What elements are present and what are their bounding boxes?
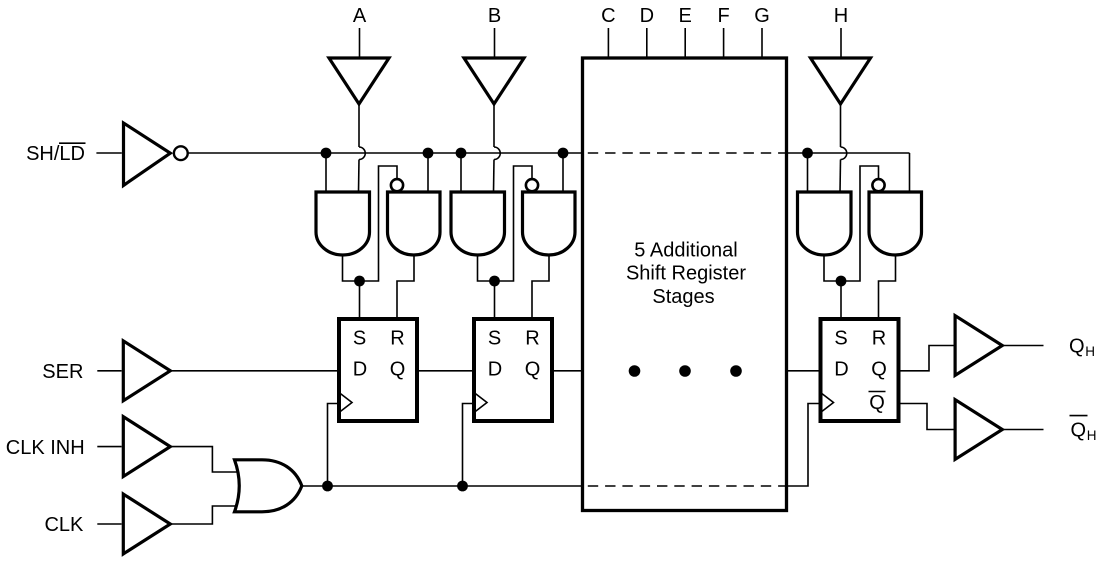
stub wire from label C into stage box xyxy=(607,28,609,58)
AND gate 1B (load reset gate) xyxy=(388,192,441,255)
wire: buffer B output down to crossover hop xyxy=(493,104,495,147)
junction dot on SH/LD line at gate 1B right input xyxy=(423,148,434,159)
wire: CLK INH buffer to OR gate top input xyxy=(170,447,238,472)
5 additional shift register stages box xyxy=(583,58,787,511)
svg-text:H: H xyxy=(1085,344,1095,359)
svg-text:Q: Q xyxy=(390,359,406,381)
svg-text:A: A xyxy=(353,5,367,27)
wire: FF2 Q into stage box xyxy=(552,370,583,372)
svg-text:C: C xyxy=(601,5,615,27)
svg-text:H: H xyxy=(1087,428,1097,443)
wire: QH buffer output xyxy=(1002,345,1043,347)
wire: B line below hop into load gate right input xyxy=(493,160,496,193)
svg-text:Q: Q xyxy=(1071,420,1087,442)
svg-text:SH/LD: SH/LD xyxy=(26,143,85,165)
junction dot on gate 1A output (S node) xyxy=(354,276,365,287)
wire: SH/LD label to inverter xyxy=(96,152,121,154)
stub wire from label A xyxy=(359,28,361,57)
junction dot clock to FF2 xyxy=(457,481,468,492)
AND gate 2B (load reset gate) xyxy=(523,192,576,255)
inverter U1 triangle for SH/LD xyxy=(124,123,171,185)
wire: gate 8B output jog to R input of flip-flop 8 xyxy=(879,255,896,319)
stub wire from label F into stage box xyxy=(723,28,725,58)
stub wire from label B xyxy=(494,28,496,57)
CLK input buffer xyxy=(123,494,170,554)
ellipsis dot 1 xyxy=(629,365,641,377)
wire: CLK INH label to buffer xyxy=(97,446,121,448)
wire: gate 2A output jog to S and to gate 2B bubble xyxy=(478,166,533,281)
junction dot on gate 8A output (S node) xyxy=(836,276,847,287)
svg-text:S: S xyxy=(353,328,366,350)
wire: buffer H output down to crossover hop xyxy=(840,104,842,147)
flip-flop FF2 box xyxy=(474,319,552,421)
inverter U1 output bubble xyxy=(174,146,188,160)
crossover hop of B line over SH/LD line xyxy=(494,147,500,160)
inverting bubble on gate 2B left input xyxy=(526,179,538,191)
wire: SH/LD line down to gate 2A left input xyxy=(460,153,462,192)
svg-text:Q: Q xyxy=(1069,336,1085,358)
AND gate 8A (load set gate) xyxy=(798,192,852,255)
wire: QbarH buffer output xyxy=(1002,429,1043,431)
overbar over LD xyxy=(59,142,86,144)
wire: CLK buffer to OR gate bottom input xyxy=(170,506,238,524)
wire: clock from stage box up to FF8 clock input xyxy=(787,404,821,487)
svg-text:D: D xyxy=(353,359,367,381)
junction dot on SH/LD line at load gate 8A left input xyxy=(802,148,813,159)
stub wire from label E into stage box xyxy=(684,28,686,58)
wire: FF8 Qbar to QbarH output buffer xyxy=(899,404,954,430)
wire: stage box to FF8 D xyxy=(787,370,821,372)
flip-flop FF8 box xyxy=(821,319,899,421)
SH/LD net solid from stage box to stage-8 gates xyxy=(787,152,910,154)
stub wire from label D into stage box xyxy=(646,28,648,58)
FF1 clock edge triangle xyxy=(339,393,352,413)
svg-text:Q: Q xyxy=(869,392,885,414)
QH output buffer xyxy=(955,316,1002,376)
svg-text:SER: SER xyxy=(42,361,83,383)
junction dot clock to FF1 xyxy=(322,481,333,492)
svg-text:CLK INH: CLK INH xyxy=(6,437,85,459)
ellipsis dot 3 xyxy=(730,365,742,377)
svg-text:5 Additional: 5 Additional xyxy=(634,239,737,261)
input buffer A (non-inverting, pointing down) xyxy=(329,58,389,104)
wire: H line below hop into load gate right input xyxy=(839,160,842,193)
svg-text:F: F xyxy=(717,5,729,27)
junction dot on SH/LD line at load gate 1A left input xyxy=(321,148,332,159)
junction dot on SH/LD line at gate 2B right input xyxy=(558,148,569,159)
wire: S input into flip-flop 1 xyxy=(359,281,361,319)
clock net: OR output to stage box xyxy=(302,485,583,487)
SER input buffer xyxy=(123,341,170,401)
wire: SH/LD line down to gate 8A left input xyxy=(807,153,809,192)
AND gate 2A (load set gate) xyxy=(451,192,505,255)
wire: SH/LD line down to gate 2B right input xyxy=(562,153,564,192)
AND gate 1A (load set gate) xyxy=(316,192,370,255)
AND gate 8B (load reset gate) xyxy=(869,192,922,255)
svg-text:CLK: CLK xyxy=(44,514,84,536)
wire: CLK label to buffer xyxy=(97,523,121,525)
OR gate G17 (clock combining) xyxy=(235,460,302,512)
QbarH output buffer xyxy=(955,400,1002,460)
CLK INH input buffer xyxy=(123,417,170,477)
wire: buffer A output down to crossover hop xyxy=(358,104,360,147)
wire: S input into flip-flop 2 xyxy=(494,281,496,319)
stub wire from label G into stage box xyxy=(761,28,763,58)
wire: S input into flip-flop 8 xyxy=(840,281,842,319)
svg-text:Q: Q xyxy=(871,359,887,381)
input buffer H (non-inverting, pointing down) xyxy=(811,58,871,104)
svg-text:D: D xyxy=(488,359,502,381)
wire: SER label to buffer xyxy=(97,370,121,372)
clock net dashed inside 5-stage box xyxy=(583,485,787,487)
svg-text:G: G xyxy=(754,5,770,27)
crossover hop of H line over SH/LD line xyxy=(841,147,847,160)
svg-text:B: B xyxy=(488,5,501,27)
wire: gate 1A output jog to S and to gate 1B bubble xyxy=(343,166,398,281)
inverting bubble on gate 8B left input xyxy=(872,179,884,191)
input buffer B (non-inverting, pointing down) xyxy=(464,58,524,104)
wire: A line below hop into load gate right input xyxy=(358,160,361,193)
wire: SER buffer to FF1 D input xyxy=(170,370,339,372)
junction dot on gate 2A output (S node) xyxy=(489,276,500,287)
stub wire from label H xyxy=(840,28,842,57)
wire: FF1 Q to FF2 D xyxy=(417,370,474,372)
svg-text:D: D xyxy=(834,359,848,381)
wire: SH/LD line end turns down into gate 8B right input xyxy=(909,153,911,192)
junction dot on SH/LD line at load gate 2A left input xyxy=(456,148,467,159)
wire: clock up to FF2 clock input xyxy=(463,404,475,487)
svg-text:Stages: Stages xyxy=(652,286,714,308)
wire: gate 1B output jog to R input of flip-flop 1 xyxy=(397,255,414,319)
ellipsis dot 2 xyxy=(679,365,691,377)
svg-text:E: E xyxy=(679,5,692,27)
wire: SH/LD line down to gate 1B right input xyxy=(427,153,429,192)
svg-text:R: R xyxy=(525,328,539,350)
FF8 clock edge triangle xyxy=(821,393,834,413)
svg-text:H: H xyxy=(834,5,848,27)
flip-flop FF1 box xyxy=(339,319,417,421)
overbar of output label QbarH xyxy=(1070,415,1088,417)
wire: gate 2B output jog to R input of flip-flop 2 xyxy=(532,255,549,319)
crossover hop of A line over SH/LD line xyxy=(359,147,365,160)
inverting bubble on gate 1B left input xyxy=(391,179,403,191)
svg-text:Shift Register: Shift Register xyxy=(626,263,746,285)
svg-text:R: R xyxy=(390,328,404,350)
SH/LD horizontal net: solid from inverter to stage box xyxy=(188,152,583,154)
overbar of FF8 Qbar xyxy=(869,391,886,393)
svg-text:Q: Q xyxy=(525,359,541,381)
svg-text:D: D xyxy=(640,5,654,27)
wire: clock up to FF1 clock input xyxy=(328,404,340,487)
wire: SH/LD line down to gate 1A left input xyxy=(325,153,327,192)
svg-text:S: S xyxy=(488,328,501,350)
svg-text:R: R xyxy=(872,328,886,350)
SH/LD net dashed inside 5-stage box xyxy=(583,152,787,154)
svg-text:S: S xyxy=(834,328,847,350)
wire: gate 8A output jog to S and to gate 8B bubble xyxy=(824,166,879,281)
wire: FF8 Q to QH output buffer xyxy=(899,346,954,371)
FF2 clock edge triangle xyxy=(474,393,487,413)
